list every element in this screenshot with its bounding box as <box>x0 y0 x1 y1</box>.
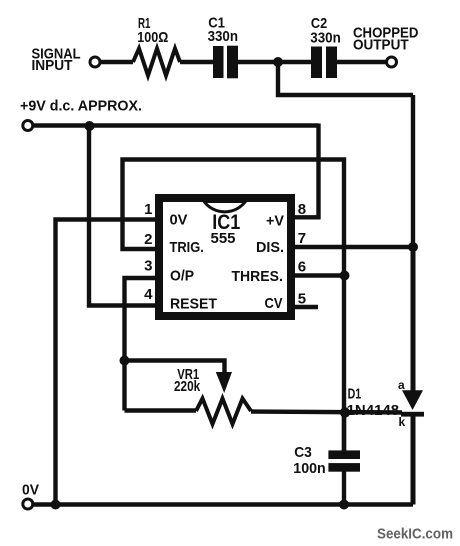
svg-text:SeekIC.com: SeekIC.com <box>377 526 453 543</box>
svg-text:555: 555 <box>211 230 236 247</box>
svg-text:5: 5 <box>298 291 306 308</box>
wire pin 7 DIS to D1 branch <box>295 245 413 249</box>
terminal 0V <box>23 499 33 509</box>
svg-text:+9V d.c. APPROX.: +9V d.c. APPROX. <box>20 98 142 115</box>
wire pin 2 loop over IC to THRES/C3 column <box>123 160 345 451</box>
diode D1 <box>401 390 424 416</box>
svg-text:1N4148: 1N4148 <box>347 402 400 419</box>
wire C2 to output terminal <box>337 60 387 64</box>
wire pin 5 CV stub <box>295 305 318 309</box>
label D1 1N4148 <box>347 385 400 418</box>
svg-text:CV: CV <box>265 295 283 312</box>
node 0V rail C3 junction <box>339 500 349 510</box>
svg-text:D1: D1 <box>348 385 362 402</box>
svg-text:8: 8 <box>298 201 306 218</box>
terminal +9V <box>23 121 33 131</box>
svg-text:330n: 330n <box>310 29 341 46</box>
wire C3 bottom to 0V rail <box>342 472 346 505</box>
wire D1 branch vertical to pin7 node <box>411 95 415 247</box>
svg-text:1: 1 <box>144 201 152 218</box>
wire C1 to C2 <box>238 60 311 64</box>
label C2 330n <box>310 15 341 47</box>
notch on IC top <box>204 202 246 212</box>
svg-text:+V: +V <box>266 213 284 230</box>
svg-text:OUTPUT: OUTPUT <box>353 36 409 53</box>
svg-text:C3: C3 <box>294 444 312 461</box>
svg-text:330n: 330n <box>208 28 238 45</box>
node pin7 junction <box>408 242 418 252</box>
svg-text:4: 4 <box>144 286 153 303</box>
wire pin7 node down to D1 anode <box>411 247 416 392</box>
wire D1 cathode down to 0V rail <box>411 416 416 505</box>
wire C3 stem top <box>342 413 346 451</box>
label VR1 220k <box>174 366 201 395</box>
svg-text:0V: 0V <box>22 482 39 499</box>
op IC1 555 body <box>159 198 291 316</box>
node 0V rail pin1 junction <box>51 500 61 510</box>
wire junction down and right to D1 branch <box>278 62 413 95</box>
node VR1 wiper junction <box>120 356 130 366</box>
capacitor C2 <box>311 47 337 79</box>
svg-text:2: 2 <box>144 231 152 248</box>
capacitor C3 <box>328 450 360 471</box>
wire 0V rail <box>33 502 413 506</box>
svg-text:3: 3 <box>144 258 152 275</box>
resistor R1 <box>133 49 180 76</box>
svg-text:100n: 100n <box>293 460 325 477</box>
wire wiper arm <box>125 361 225 377</box>
wire +9V to pin 4 RESET <box>89 126 156 306</box>
label C3 100n <box>293 444 325 477</box>
wire pin 6 THRES stub <box>295 273 344 277</box>
label SIGNAL INPUT <box>32 46 81 75</box>
wire pin 1 to 0V rail <box>56 220 157 505</box>
capacitor C1 <box>213 46 238 79</box>
svg-text:0V: 0V <box>170 212 188 229</box>
wire VR1 left end <box>125 408 197 412</box>
potentiometer VR1 zigzag <box>196 399 251 425</box>
node pin6 junction <box>340 271 350 281</box>
svg-text:a: a <box>398 378 405 392</box>
terminal chopped output <box>387 57 397 67</box>
svg-text:220k: 220k <box>174 378 201 395</box>
svg-text:6: 6 <box>298 259 306 276</box>
svg-text:O/P: O/P <box>170 268 194 285</box>
svg-text:DIS.: DIS. <box>256 239 284 256</box>
svg-text:7: 7 <box>298 230 306 247</box>
wire +9V rail <box>33 123 318 127</box>
wire VR1 right to D1 cathode <box>251 412 402 413</box>
label CHOPPED OUTPUT <box>353 25 419 54</box>
wire pin 3 O/P down to VR1 <box>125 278 157 411</box>
svg-text:TRIG.: TRIG. <box>170 239 204 256</box>
svg-text:THRES.: THRES. <box>232 268 283 285</box>
svg-text:RESET: RESET <box>170 296 217 313</box>
arrowhead of VR1 wiper <box>216 372 232 393</box>
wire R1 to C1 <box>180 60 214 64</box>
node junction C1-C2 <box>273 57 283 67</box>
terminal signal input <box>90 57 100 67</box>
label R1 100ohm <box>137 15 168 46</box>
svg-text:100Ω: 100Ω <box>137 29 168 46</box>
wire input to R1 <box>100 60 133 64</box>
svg-text:k: k <box>399 415 406 429</box>
node +9V rail junction <box>85 121 95 131</box>
label C1 330n <box>208 15 238 46</box>
node VR1/D1/C3 junction <box>340 407 350 417</box>
wire +9V to pin 8 <box>295 124 319 218</box>
svg-text:INPUT: INPUT <box>32 57 73 74</box>
